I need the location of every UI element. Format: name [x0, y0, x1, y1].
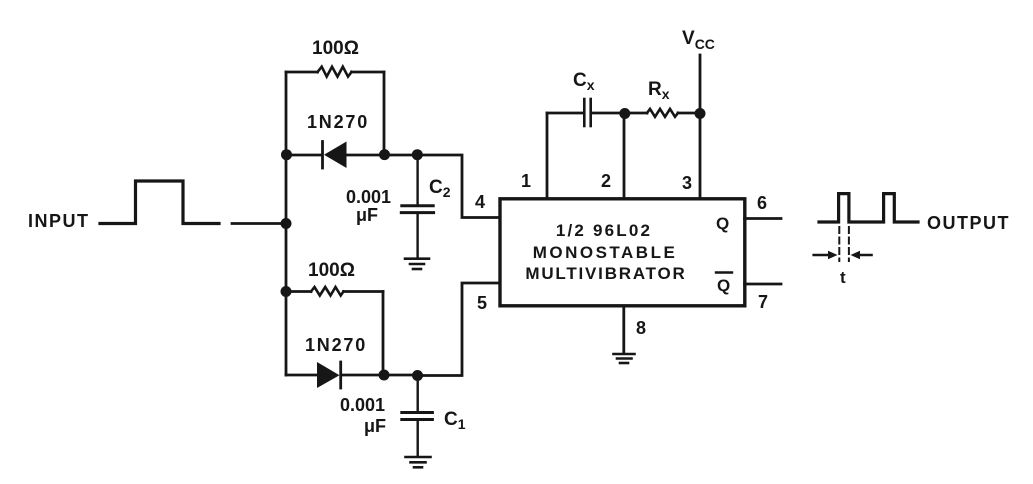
node upper diode row / input bus junction [281, 149, 292, 160]
input pulse waveform [100, 181, 219, 224]
svg-text:3: 3 [682, 173, 692, 193]
op IC U1 1/2 96L02 monostable multivibrator box [500, 199, 745, 306]
node pin2/Cx/Rx junction [619, 108, 630, 119]
svg-text:MONOSTABLE: MONOSTABLE [533, 243, 678, 262]
svg-text:100Ω: 100Ω [308, 260, 355, 281]
svg-text:1/2 96L02: 1/2 96L02 [556, 221, 652, 240]
wire lower loop right vertical [382, 292, 385, 376]
wire pin 2 [623, 113, 626, 198]
wire pin 3 [699, 113, 702, 198]
svg-text:8: 8 [636, 318, 646, 338]
label Q-bar [716, 273, 732, 296]
pulse width arrow left [814, 251, 838, 259]
diode D2 1N270 lower [317, 362, 383, 388]
node C1 top junction [412, 370, 423, 381]
svg-text:t: t [840, 268, 846, 287]
wire pin 1 [546, 113, 549, 198]
ground (C1) [406, 457, 431, 467]
svg-text:5: 5 [477, 293, 487, 313]
wire lower diode row [286, 374, 317, 377]
capacitor C2 [401, 155, 433, 258]
svg-text:4: 4 [475, 192, 485, 212]
wire diode row to C1 node [383, 374, 417, 377]
svg-text:6: 6 [757, 193, 767, 213]
ground (C2) [405, 259, 429, 269]
wire from input waveform to node A [232, 222, 286, 225]
wire diode row to C2 node [384, 154, 417, 157]
node diode/loop junction lower [379, 370, 390, 381]
pulse width arrow right [851, 251, 872, 259]
svg-text:Cx: Cx [573, 70, 595, 93]
node lower loop left junction [281, 286, 292, 297]
wire Vcc [699, 55, 702, 113]
capacitor C1 [402, 376, 433, 457]
wire to pin 4 [417, 155, 500, 218]
wire input vertical bus [285, 72, 288, 375]
wire upper diode row [286, 154, 322, 157]
svg-text:Rx: Rx [648, 79, 670, 102]
wire upper loop right vertical [383, 72, 386, 155]
ground (IC pin 8) [614, 354, 635, 363]
svg-text:1: 1 [521, 171, 531, 191]
svg-text:MULTIVIBRATOR: MULTIVIBRATOR [525, 264, 686, 283]
svg-text:1N270: 1N270 [307, 112, 369, 132]
svg-text:Q: Q [717, 276, 730, 295]
resistor R1 100Ω upper [286, 67, 384, 77]
svg-text:C2: C2 [429, 177, 451, 200]
output pulse waveform [819, 194, 918, 222]
svg-text:OUTPUT: OUTPUT [927, 213, 1010, 233]
wire pin 7 [745, 283, 782, 286]
svg-text:INPUT: INPUT [28, 211, 90, 231]
wire pin 6 [745, 217, 782, 220]
svg-text:μF: μF [356, 205, 378, 225]
svg-text:0.001: 0.001 [340, 395, 385, 415]
wire to pin 5 [417, 283, 500, 376]
svg-text:1N270: 1N270 [305, 335, 367, 355]
pulse width marker dashed line left [838, 227, 840, 261]
node diode/loop junction upper [379, 149, 390, 160]
pulse width marker dashed line right [848, 227, 850, 261]
wire pin 8 [622, 306, 625, 354]
svg-text:7: 7 [758, 292, 768, 312]
svg-text:2: 2 [601, 171, 611, 191]
node pin3/Rx/Vcc junction [695, 108, 706, 119]
resistor R2 100Ω lower [286, 287, 383, 296]
node C2 top junction [412, 149, 423, 160]
svg-text:C1: C1 [444, 409, 466, 432]
svg-text:Q: Q [716, 214, 729, 233]
svg-text:μF: μF [364, 416, 386, 436]
node A input junction [281, 218, 292, 229]
svg-text:100Ω: 100Ω [312, 38, 359, 59]
capacitor Cx [547, 99, 624, 126]
diode D1 1N270 upper [323, 142, 385, 169]
resistor Rx [624, 109, 700, 117]
svg-text:0.001: 0.001 [346, 187, 391, 207]
svg-text:VCC: VCC [682, 28, 715, 52]
